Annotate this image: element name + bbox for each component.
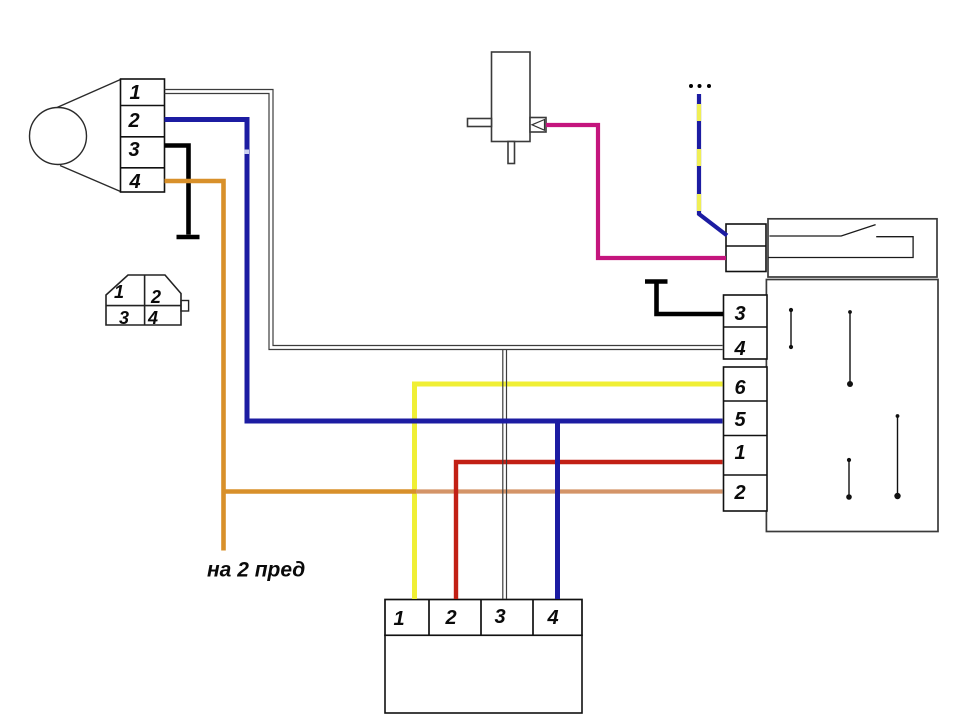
ground G2 (T symbol) bar — [645, 279, 668, 284]
contact line B — [847, 310, 853, 387]
pin block 3-4 — [724, 295, 768, 359]
valve connector triangle — [532, 120, 545, 131]
connector X3 (2-pin, to relay) — [726, 224, 766, 272]
wire blue notch artifact — [244, 150, 249, 155]
wire blue branch to X4 pin4 — [555, 421, 560, 599]
svg-text:4: 4 — [128, 171, 140, 193]
wire red: K1 pin1 to X4 pin2 — [456, 462, 723, 599]
svg-text:1: 1 — [129, 82, 140, 104]
main switch body K1 lower section — [766, 280, 938, 532]
switch contact symbol inside K1 — [768, 225, 913, 258]
wire blue: X1 pin2 to K1 pin5 — [165, 120, 723, 422]
svg-text:4: 4 — [733, 338, 745, 360]
wire blue/yellow dashed: to X3 pin1 — [699, 94, 727, 236]
continuation dots — [689, 84, 711, 88]
module body below X4 — [385, 635, 582, 713]
pin labels X1 — [127, 82, 140, 193]
svg-text:2: 2 — [444, 607, 456, 629]
svg-text:3: 3 — [734, 303, 745, 325]
svg-text:2: 2 — [733, 482, 745, 504]
washer valve U1 (top centre) — [468, 52, 547, 164]
contact line C — [894, 414, 900, 499]
relay/switch block K1 top section — [768, 219, 937, 277]
wire orange horizontal segment — [224, 489, 417, 493]
svg-text:4: 4 — [147, 308, 158, 328]
svg-text:4: 4 — [546, 607, 558, 629]
svg-text:2: 2 — [150, 287, 161, 307]
contact line A — [789, 308, 793, 349]
wire white (two thin lines): X1 pin1 to K1 pin4 — [165, 90, 723, 600]
svg-text:3: 3 — [119, 308, 129, 328]
yellow dashes overlay — [697, 104, 701, 214]
connector X2 face view (2x2) — [106, 275, 189, 325]
wire magenta: valve U1 to X3 pin2 — [546, 125, 726, 258]
svg-text:1: 1 — [114, 282, 124, 302]
pin labels X4 — [393, 606, 558, 630]
contact line D — [846, 458, 852, 500]
wire black: ground G2 to K1 pin3 — [657, 282, 724, 315]
svg-text:3: 3 — [494, 606, 505, 628]
svg-text:5: 5 — [734, 409, 746, 431]
svg-text:на 2 пред: на 2 пред — [207, 559, 305, 582]
connector X1 (4-pin, left) — [121, 79, 165, 192]
svg-text:1: 1 — [393, 608, 404, 630]
svg-text:3: 3 — [128, 139, 139, 161]
wire black: X1 pin3 to ground — [165, 146, 189, 235]
pin labels right block — [733, 303, 746, 504]
wire orange: X1 pin4 down, to fuse stub — [165, 181, 224, 551]
pin block 6-5-1-2 — [724, 367, 768, 511]
svg-text:2: 2 — [127, 110, 139, 132]
svg-text:1: 1 — [734, 442, 745, 464]
ground G1 bar — [177, 235, 200, 240]
connector X4 (4-pin, bottom) — [385, 600, 582, 636]
motor M1 (washer pump body) — [30, 80, 121, 192]
svg-text:6: 6 — [734, 377, 746, 399]
pin labels X2 — [114, 282, 161, 328]
wire salmon segment to K1 pin2 — [416, 489, 723, 493]
wire yellow: K1 pin6 to X4 pin1 — [415, 384, 723, 599]
